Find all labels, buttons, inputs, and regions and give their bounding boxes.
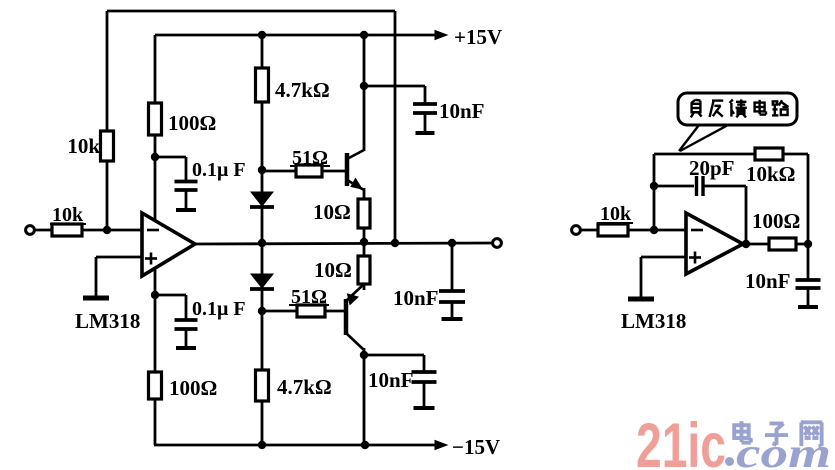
svg-text:10nF: 10nF (745, 269, 791, 293)
svg-text:100Ω: 100Ω (169, 376, 217, 400)
svg-text:10nF: 10nF (368, 368, 414, 392)
svg-text:4.7kΩ: 4.7kΩ (275, 78, 330, 102)
svg-text:10Ω: 10Ω (313, 200, 351, 224)
svg-text:4.7kΩ: 4.7kΩ (277, 375, 332, 399)
svg-text:10Ω: 10Ω (314, 258, 352, 282)
svg-text:LM318: LM318 (621, 309, 686, 333)
svg-text:10nF: 10nF (393, 286, 439, 310)
svg-text:0.1μ F: 0.1μ F (192, 298, 246, 320)
svg-text:10k: 10k (600, 203, 632, 225)
svg-text:21ic: 21ic (636, 411, 726, 470)
svg-text:+15V: +15V (454, 25, 502, 49)
svg-text:10kΩ: 10kΩ (746, 162, 796, 186)
svg-text:10k: 10k (67, 134, 100, 158)
svg-text:10nF: 10nF (439, 99, 485, 123)
svg-text:20pF: 20pF (689, 156, 735, 180)
svg-text:100Ω: 100Ω (752, 209, 800, 233)
svg-text:100Ω: 100Ω (168, 111, 216, 135)
svg-text:LM318: LM318 (75, 309, 140, 333)
svg-text:−15V: −15V (452, 435, 500, 459)
svg-text:0.1μ F: 0.1μ F (192, 159, 246, 181)
